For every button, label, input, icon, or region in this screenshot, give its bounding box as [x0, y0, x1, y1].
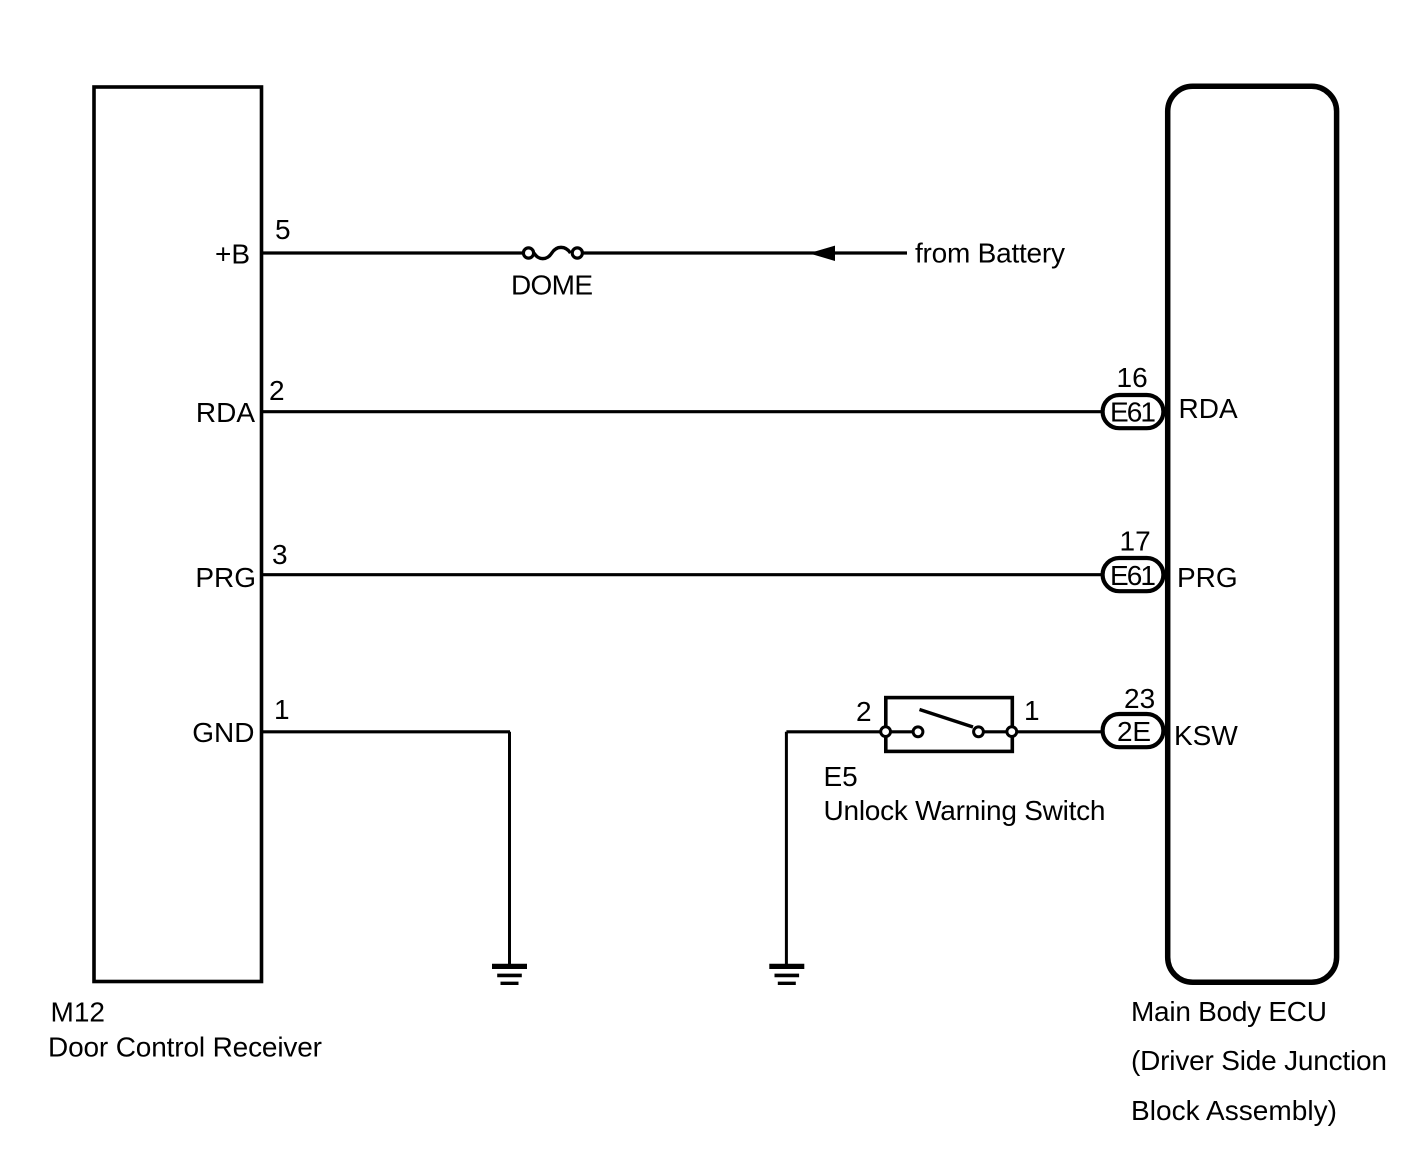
wire KSW ground vertical — [785, 732, 788, 965]
svg-text:Main Body ECU: Main Body ECU — [1131, 996, 1327, 1027]
svg-text:KSW: KSW — [1174, 720, 1238, 751]
svg-text:3: 3 — [272, 539, 288, 570]
connector Main Body ECU box — [1168, 86, 1337, 982]
wire GND vertical — [508, 732, 511, 965]
wire KSW to switch — [786, 730, 918, 733]
svg-text:5: 5 — [275, 214, 291, 245]
svg-text:2E: 2E — [1117, 716, 1151, 747]
svg-text:2: 2 — [269, 375, 285, 406]
svg-text:Block Assembly): Block Assembly) — [1131, 1095, 1337, 1126]
svg-text:17: 17 — [1120, 526, 1151, 557]
svg-text:M12: M12 — [51, 997, 105, 1028]
switch blade — [920, 710, 974, 728]
svg-text:16: 16 — [1117, 362, 1148, 393]
svg-text:RDA: RDA — [196, 397, 255, 428]
switch E5 box — [886, 698, 1013, 752]
wire RDA — [263, 410, 1104, 413]
svg-text:Unlock Warning Switch: Unlock Warning Switch — [824, 795, 1106, 826]
ground symbol G2 — [769, 966, 804, 983]
wire PRG — [263, 573, 1104, 576]
svg-text:RDA: RDA — [1179, 393, 1238, 424]
svg-text:PRG: PRG — [1177, 562, 1238, 593]
fuse DOME — [523, 247, 582, 258]
connector oval 2E pin 23 — [1103, 714, 1164, 747]
connector oval E61 pin 16 — [1103, 395, 1164, 428]
wire +B pin 5 right segment — [583, 251, 907, 254]
svg-text:E5: E5 — [824, 761, 858, 792]
svg-text:DOME: DOME — [511, 270, 593, 301]
svg-text:E61: E61 — [1110, 397, 1156, 428]
wire +B pin 5 left segment — [263, 251, 523, 254]
switch contact inner right — [974, 727, 984, 737]
svg-text:PRG: PRG — [195, 562, 256, 593]
svg-text:E61: E61 — [1110, 560, 1156, 591]
ground symbol G1 — [492, 966, 527, 983]
svg-text:from Battery: from Battery — [915, 238, 1065, 269]
svg-text:+B: +B — [215, 239, 250, 270]
wire switch to 2E — [979, 730, 1105, 733]
arrow from Battery — [809, 246, 835, 261]
svg-text:(Driver Side Junction: (Driver Side Junction — [1131, 1045, 1387, 1076]
svg-text:2: 2 — [856, 696, 872, 727]
svg-text:Door Control Receiver: Door Control Receiver — [48, 1032, 322, 1063]
wire GND horizontal — [263, 730, 510, 733]
svg-text:1: 1 — [1024, 695, 1040, 726]
svg-text:GND: GND — [192, 717, 254, 748]
connector oval E61 pin 17 — [1103, 558, 1164, 591]
svg-text:1: 1 — [274, 694, 290, 725]
switch contact terminal 1 — [1007, 727, 1017, 737]
switch contact inner left — [913, 727, 923, 737]
switch contact terminal 2 — [881, 727, 891, 737]
connector M12 Door Control Receiver box — [94, 87, 262, 982]
svg-text:23: 23 — [1124, 683, 1155, 714]
